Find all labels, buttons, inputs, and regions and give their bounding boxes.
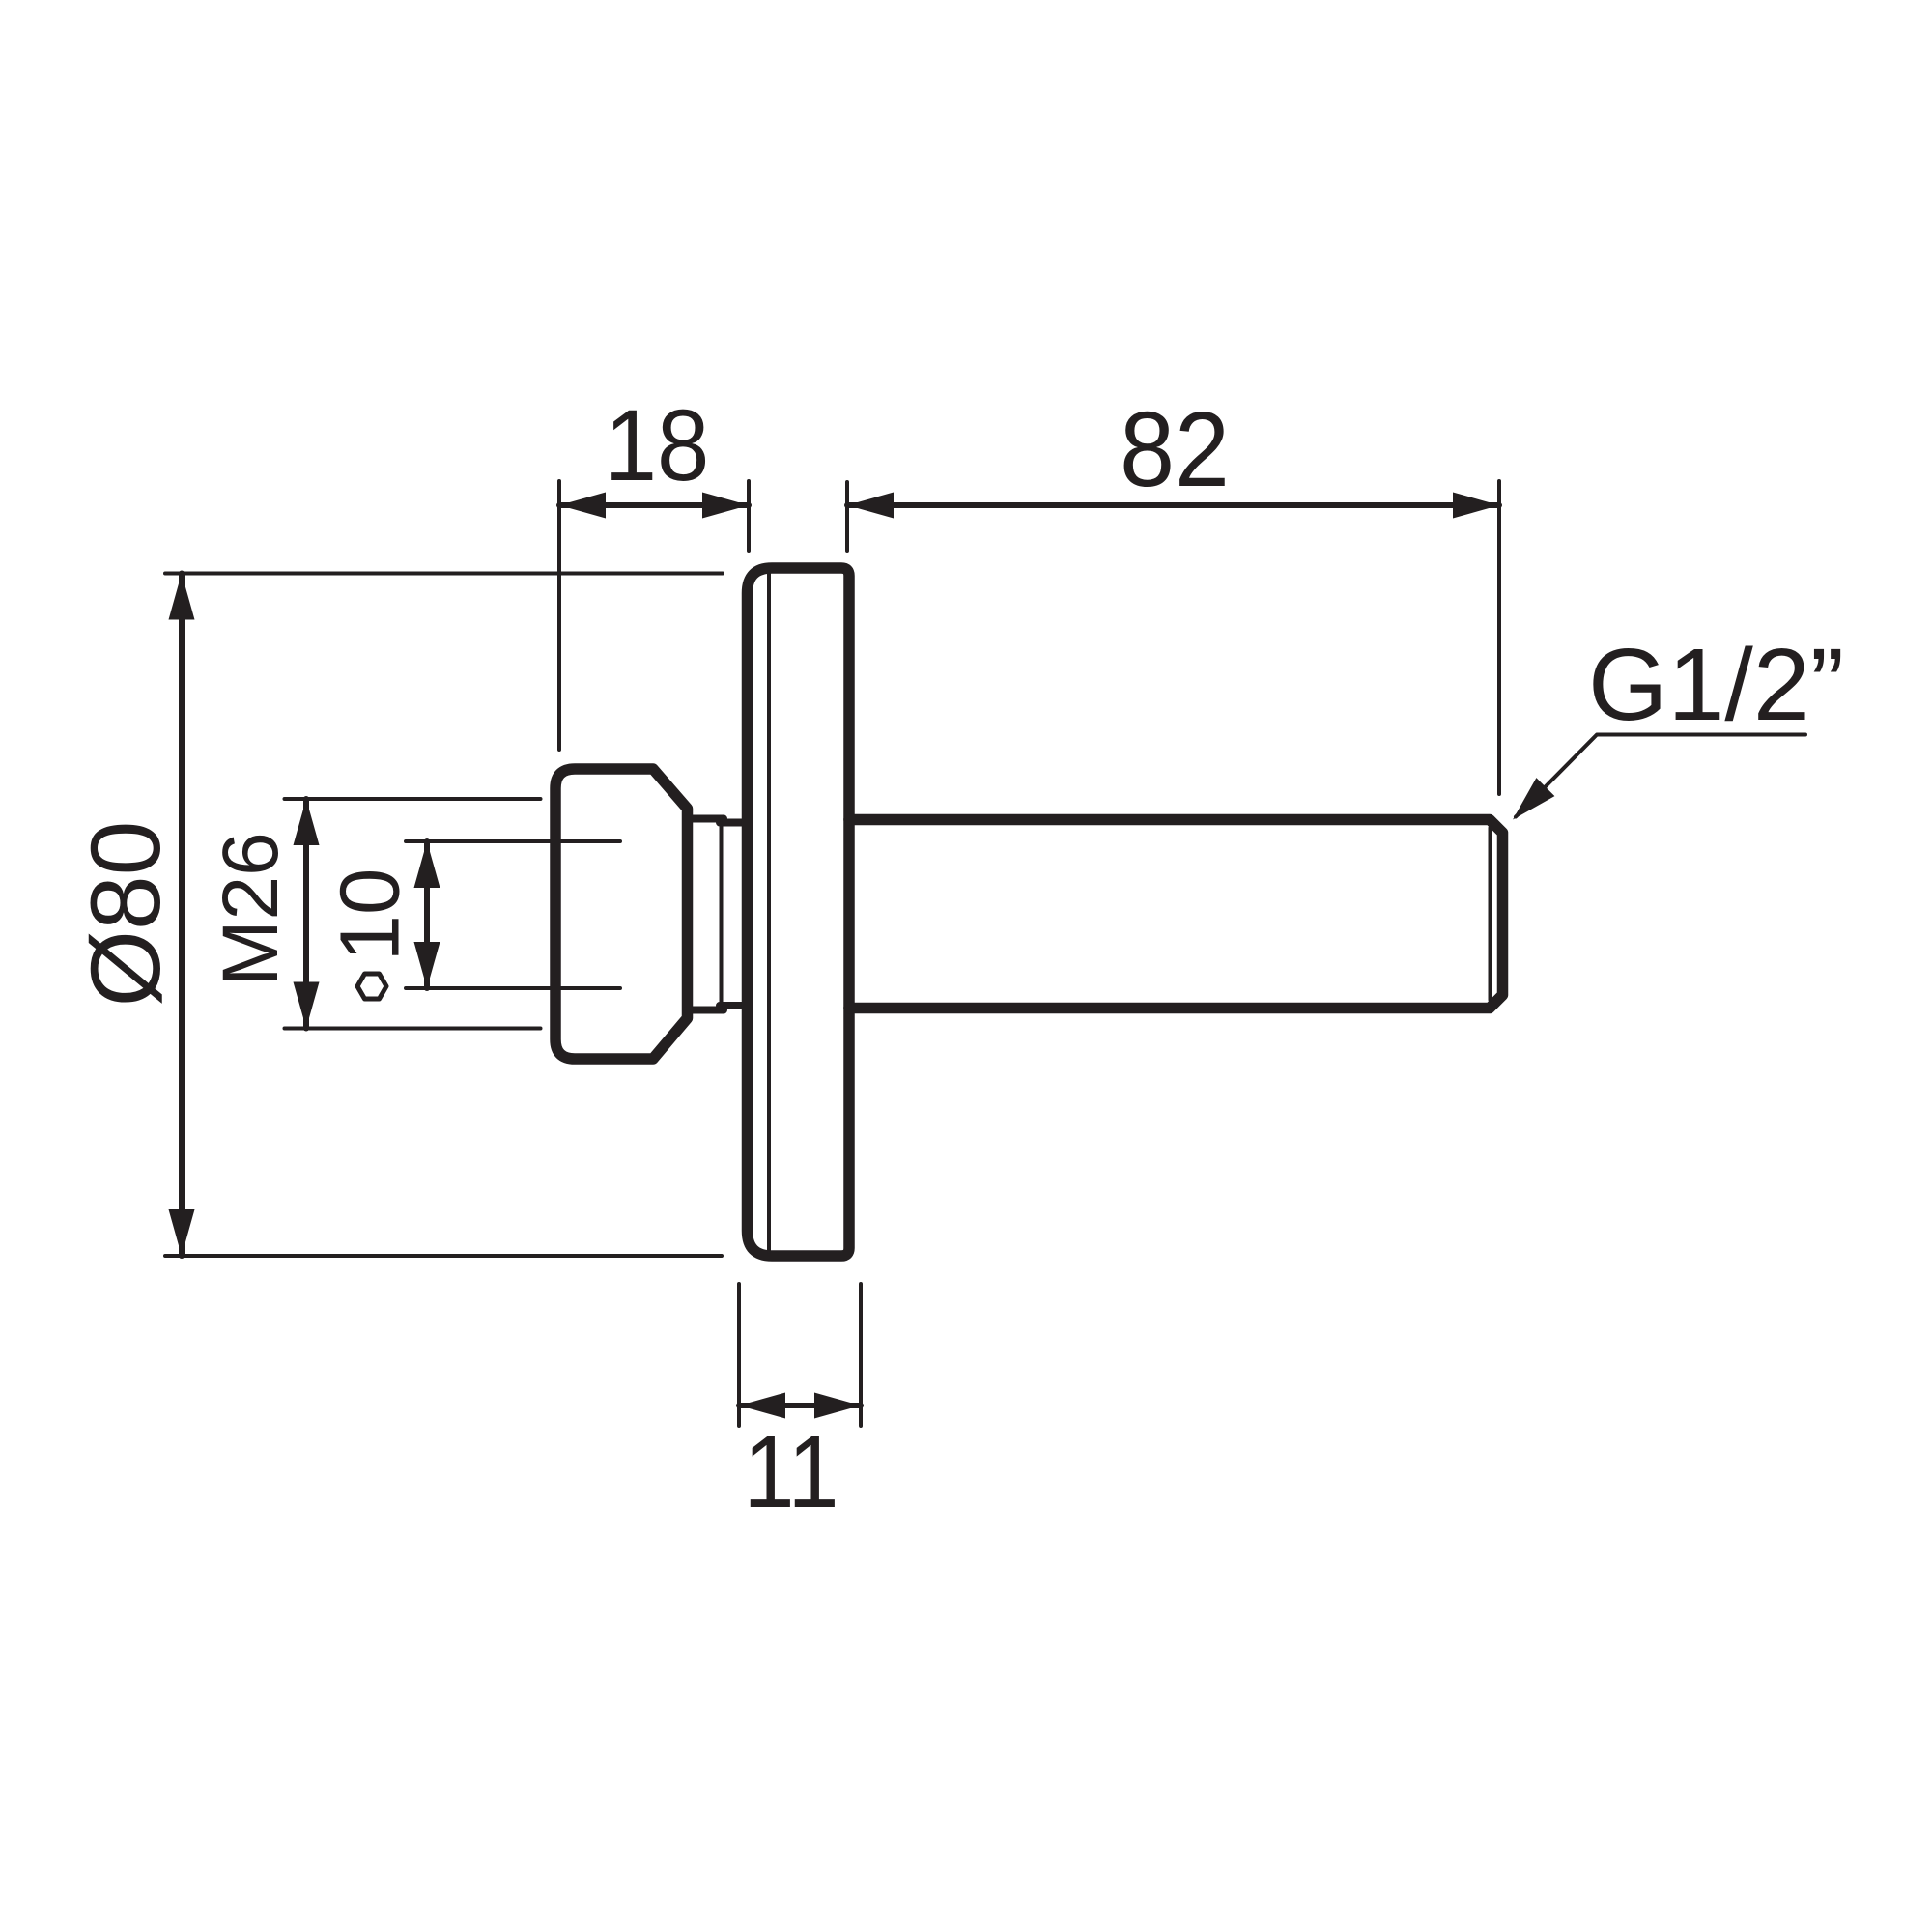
leader line G1/2	[1516, 735, 1805, 817]
arrow M26 bottom	[294, 982, 320, 1029]
dimension 10 line	[424, 841, 430, 988]
knob outline	[555, 769, 688, 1059]
arrow 18 right	[702, 493, 749, 519]
dimension 82 line	[847, 502, 1499, 508]
svg-text:11: 11	[743, 1415, 838, 1529]
dimension 11 line	[739, 1403, 861, 1408]
pipe outline	[849, 820, 1503, 1009]
dimension M26 extension lines	[285, 799, 541, 1029]
pipe thread chamfer line	[1489, 828, 1492, 1000]
arrow G1/2 leader	[1513, 778, 1554, 819]
dimension D80 extension lines	[165, 574, 723, 1257]
wall plate front face line	[767, 572, 771, 1252]
dimension 18 line	[559, 502, 749, 508]
dimension 82 extension lines	[847, 481, 1499, 794]
arrow D80 top	[169, 574, 195, 620]
collar edge line	[720, 823, 724, 1005]
arrow M26 top	[294, 799, 320, 845]
arrow 11 left	[739, 1393, 785, 1419]
dimension M26 line	[303, 799, 309, 1029]
arrow 82 right	[1453, 493, 1499, 519]
collar bottom edge	[688, 1006, 749, 1010]
dimension 18 extension lines	[559, 481, 749, 750]
wall plate outline	[748, 568, 850, 1256]
arrow 82 left	[847, 493, 894, 519]
svg-text:M26: M26	[207, 832, 295, 986]
dimension D80 line	[179, 574, 185, 1257]
hex socket symbol	[357, 974, 386, 999]
arrow 10 bottom	[414, 942, 440, 988]
collar top edge	[688, 819, 749, 823]
svg-text:10: 10	[324, 868, 417, 962]
svg-text:Ø80: Ø80	[71, 821, 181, 1008]
svg-text:18: 18	[605, 389, 710, 502]
dimension 11 extension lines	[739, 1284, 861, 1426]
arrow 10 top	[414, 841, 440, 888]
svg-text:G1/2”: G1/2”	[1588, 628, 1844, 742]
dimension 10 extension lines	[406, 841, 620, 988]
svg-text:82: 82	[1120, 390, 1230, 509]
arrow D80 bottom	[169, 1209, 195, 1256]
arrow 18 left	[559, 493, 606, 519]
arrow 11 right	[814, 1393, 861, 1419]
